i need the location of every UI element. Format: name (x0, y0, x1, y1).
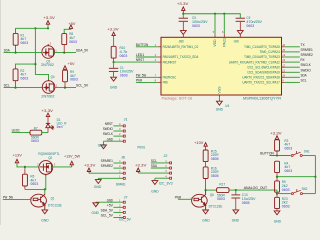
svg-text:GND: GND (94, 185, 102, 189)
svg-text:Q6: Q6 (210, 193, 214, 197)
wire gate node (25, 176, 46, 189)
resistor R9 (63, 70, 78, 88)
node R9-SCL_5V (64, 87, 66, 89)
wire TX (281, 42, 305, 47)
wire ANALOG_OUT into ladder (276, 190, 278, 194)
svg-text:GND: GND (232, 218, 240, 222)
svg-text:+5V: +5V (68, 62, 75, 66)
resistor R7 (30, 126, 48, 143)
svg-text:+3.3V: +3.3V (41, 109, 53, 113)
svg-text:Package: SOT-16: Package: SOT-16 (162, 96, 193, 100)
wire Q3 drain to SDA_5V (54, 52, 76, 54)
node R1-SDA (15, 52, 17, 54)
transistor Q4 2N7002 (41, 75, 57, 99)
svg-text:SDA: SDA (151, 163, 157, 168)
resistor R6 (23, 167, 39, 190)
svg-text:TIM0_C1/PA24: TIM0_C1/PA24 (259, 50, 279, 54)
wire SWCLK (281, 62, 311, 67)
svg-text:R17: R17 (219, 182, 225, 186)
svg-text:R7: R7 (34, 126, 38, 130)
transistor Q2 RQ5H030SPTL (37, 152, 60, 176)
ground (C5 to MCU GND pin) (180, 31, 186, 35)
capacitor C9 (236, 16, 263, 30)
ground (C9 to MCU GND pin) (237, 31, 243, 35)
ground (MCU VSS) (216, 95, 224, 112)
pin GND (98, 177, 121, 179)
wire PWM (136, 77, 161, 82)
power +10V (194, 141, 207, 150)
power +5V (R9) (63, 62, 75, 70)
svg-text:PA1/NRST: PA1/NRST (163, 60, 177, 64)
svg-text:UART0_RX/I2C1_SDA/PA18: UART0_RX/I2C1_SDA/PA18 (242, 76, 279, 80)
svg-text:+13V: +13V (13, 153, 23, 157)
svg-text:GND: GND (151, 190, 159, 194)
node R6 tap (24, 166, 26, 168)
power +13V (13, 153, 23, 164)
svg-text:NRST: NRST (136, 57, 145, 62)
svg-text:SCL_5V: SCL_5V (101, 213, 114, 218)
node C13 tap (235, 189, 237, 191)
svg-text:MSPM0L1306TQYYR: MSPM0L1306TQYYR (243, 96, 281, 100)
svg-text:GND: GND (98, 144, 106, 148)
wire Q2 drain to +13V_5W (52, 166, 72, 168)
svg-text:J7: J7 (124, 195, 128, 199)
svg-text:SPARE2: SPARE2 (101, 163, 113, 168)
svg-text:PW_5W: PW_5W (3, 194, 13, 199)
svg-text:12: 12 (281, 63, 286, 67)
svg-text:+3.3V: +3.3V (135, 163, 147, 167)
wire LED1 (136, 52, 161, 57)
svg-text:DTC123E: DTC123E (48, 203, 62, 207)
svg-text:PA21: PA21 (222, 38, 226, 47)
svg-text:+10V: +10V (194, 141, 204, 145)
resistor R4 (275, 161, 293, 177)
svg-text:2N7002: 2N7002 (41, 63, 54, 67)
sheet border (0, 0, 2, 225)
ground (J2) (154, 178, 156, 180)
node NRST (113, 61, 115, 63)
ground (Q1) (41, 210, 49, 223)
svg-text:PWM: PWM (175, 195, 181, 200)
resistor R3 (275, 139, 293, 156)
power +3.3V (MCU) (177, 2, 189, 14)
wire SWDIO (281, 67, 311, 72)
svg-text:0603: 0603 (31, 139, 39, 143)
svg-text:J6: J6 (121, 156, 125, 160)
svg-text:16: 16 (281, 43, 286, 47)
svg-text:SW1: SW1 (304, 149, 310, 153)
svg-text:SDA_5V: SDA_5V (76, 48, 89, 53)
svg-text:2N7002: 2N7002 (41, 94, 54, 98)
wire +3.3V rail (16, 27, 48, 29)
transistor Q3 2N7002 (41, 42, 57, 68)
node rail-R2tap (34, 27, 36, 29)
switch SW1 (291, 149, 315, 176)
node R16/Q6/R17 (205, 189, 207, 191)
svg-text:+3.3V: +3.3V (270, 132, 282, 136)
wire BUTTON (136, 42, 161, 47)
svg-text:0603: 0603 (20, 41, 28, 45)
wire PW_5W (136, 72, 161, 77)
svg-text:I2C_3V3: I2C_3V3 (159, 182, 173, 186)
capacitor C5 (179, 14, 209, 30)
wire SCL (282, 77, 308, 82)
svg-text:UART0_TX/I2C1_SCL/PA17: UART0_TX/I2C1_SCL/PA17 (242, 81, 279, 85)
node BUTTON (276, 154, 278, 156)
svg-text:Q4: Q4 (51, 75, 55, 79)
svg-text:BUTTON: BUTTON (136, 42, 148, 47)
power +3.3V (level shifter) (43, 16, 55, 26)
svg-text:+3.3V: +3.3V (84, 163, 96, 167)
svg-text:J2: J2 (164, 154, 168, 158)
svg-text:0603: 0603 (30, 182, 38, 186)
svg-text:0805: 0805 (211, 174, 219, 178)
power +5V (R8) (64, 22, 76, 33)
resistor R2 (13, 63, 36, 88)
svg-text:Q1: Q1 (51, 196, 55, 200)
resistor R15 (203, 149, 219, 167)
svg-text:0603: 0603 (192, 24, 200, 28)
svg-text:0805: 0805 (242, 201, 250, 205)
ground (C1) (110, 77, 118, 89)
svg-text:0603: 0603 (284, 146, 292, 150)
svg-text:GND: GND (234, 40, 239, 44)
wire RX (281, 57, 305, 62)
wire gate drop (35, 28, 48, 79)
svg-text:BUTTON: BUTTON (260, 151, 274, 156)
svg-text:GND: GND (107, 136, 113, 141)
resistor R8 (62, 32, 77, 52)
wire SPARE1 (281, 47, 313, 52)
svg-text:ANALOG_OUT: ANALOG_OUT (244, 185, 268, 190)
svg-text:0603: 0603 (246, 24, 254, 28)
wire SPARE2 (281, 52, 313, 57)
ground (R23) (274, 211, 282, 224)
svg-text:U4: U4 (225, 104, 229, 108)
ground (C13) (232, 210, 240, 223)
svg-text:0603: 0603 (120, 54, 128, 58)
ground (J7) (95, 201, 97, 204)
svg-text:SW2: SW2 (302, 187, 308, 191)
svg-text:0603: 0603 (69, 40, 77, 44)
svg-text:0603: 0603 (282, 204, 290, 208)
pin GND (155, 177, 168, 179)
svg-text:UART0_RX/UART1_RX/TIM2_C1/PA22: UART0_RX/UART1_RX/TIM2_C1/PA22 (229, 60, 280, 64)
resistor R5 (275, 177, 290, 194)
svg-text:+3.3V: +3.3V (107, 28, 119, 32)
svg-text:0603: 0603 (282, 188, 290, 192)
svg-text:SCL: SCL (301, 77, 308, 82)
svg-text:PROG: PROG (137, 146, 145, 150)
wire mid node (277, 176, 315, 178)
wire SDA (281, 72, 307, 77)
pin +3.3V (138, 172, 167, 174)
svg-text:LED1: LED1 (12, 128, 20, 133)
node R2-SCL (14, 87, 16, 89)
svg-text:TIM1_C1/UART0_TX/PA25: TIM1_C1/UART0_TX/PA25 (244, 45, 280, 49)
svg-text:GND: GND (179, 40, 184, 44)
svg-text:SCL: SCL (4, 83, 11, 88)
power +13V_5W flag (64, 155, 81, 167)
svg-text:Q2: Q2 (48, 156, 52, 160)
svg-text:VSS: VSS (218, 86, 222, 94)
svg-text:GND: GND (110, 86, 118, 90)
svg-text:0603: 0603 (70, 78, 78, 82)
svg-text:0603: 0603 (284, 169, 292, 173)
svg-text:15: 15 (281, 48, 286, 52)
svg-text:13: 13 (281, 58, 286, 62)
svg-text:0603: 0603 (20, 76, 28, 80)
svg-text:0603: 0603 (120, 73, 128, 77)
svg-text:PA6: PA6 (163, 81, 168, 85)
node R8-SDA_5V (63, 52, 65, 54)
svg-text:3mm: 3mm (57, 125, 63, 129)
op-amp U4 MSPM0L1306 body (161, 37, 282, 95)
wire VDD drops (214, 14, 216, 34)
svg-text:0603: 0603 (217, 197, 225, 201)
svg-text:VDD: VDD (213, 39, 217, 47)
power +3.3V (LED) (41, 109, 53, 119)
svg-text:GND: GND (92, 211, 100, 215)
svg-text:GND: GND (274, 219, 282, 223)
svg-text:+5V: +5V (69, 22, 76, 26)
svg-text:PA0/UART1_TX/I2C0_SDA: PA0/UART1_TX/I2C0_SDA (163, 55, 199, 59)
svg-text:RQ5H030SPTL: RQ5H030SPTL (38, 152, 59, 156)
resistor R16 (203, 166, 219, 190)
capacitor C13 (231, 190, 256, 210)
svg-text:+3.3V: +3.3V (177, 2, 189, 6)
ground (J1) (103, 141, 105, 145)
svg-text:PA26/UART0_RX/TIM1_C0: PA26/UART0_RX/TIM1_C0 (163, 45, 199, 49)
svg-text:SPARE: SPARE (116, 182, 126, 186)
svg-text:+13V_5W: +13V_5W (64, 155, 81, 159)
resistor R1 (13, 28, 28, 52)
LED D1 (46, 118, 67, 133)
resistor R17 (206, 182, 277, 201)
capacitor C1 (109, 62, 134, 77)
switch SW2 (277, 177, 315, 195)
svg-text:DTC123E: DTC123E (209, 205, 223, 209)
resistor R23 (275, 194, 290, 211)
svg-text:0805: 0805 (211, 157, 219, 161)
wire NRST (114, 57, 161, 62)
svg-text:SDA: SDA (4, 48, 10, 53)
wire +13V to Q2 (17, 164, 39, 167)
svg-text:14: 14 (281, 53, 286, 57)
svg-text:PA2/ROSC: PA2/ROSC (163, 76, 177, 80)
svg-text:GND: GND (41, 218, 49, 222)
power +3.3V (R10) (107, 28, 119, 47)
transistor Q1 DTC123E (30, 194, 63, 210)
svg-text:I2C1_SDA/SWDIO/PA19: I2C1_SDA/SWDIO/PA19 (248, 70, 280, 74)
node rail-Q3gate (47, 27, 49, 29)
svg-text:J1: J1 (124, 118, 128, 122)
svg-text:I2C_5V: I2C_5V (119, 217, 131, 221)
transistor Q6 DTC123E (190, 190, 222, 210)
svg-text:10: 10 (281, 73, 286, 77)
ground (Q6) (202, 210, 210, 222)
svg-text:PWM: PWM (136, 77, 142, 82)
resistor R10 (111, 46, 127, 62)
wire Q4 drain to SCL_5V (55, 87, 76, 89)
node SW2 (276, 193, 278, 195)
svg-text:GND: GND (216, 108, 224, 112)
wire 3.3V rail (183, 14, 240, 18)
svg-text:GND: GND (202, 218, 210, 222)
pin +3.3V (89, 172, 121, 174)
svg-text:TIM0_C0/UART0_TX/PA23: TIM0_C0/UART0_TX/PA23 (244, 55, 280, 59)
svg-text:+3.3V: +3.3V (43, 16, 55, 20)
ground (J6) (97, 178, 99, 179)
power +3.3V (ladder) (270, 132, 282, 140)
svg-text:I2C1_SCL/SWCLK/PA20: I2C1_SCL/SWCLK/PA20 (248, 65, 280, 69)
svg-text:SCL_5V: SCL_5V (76, 83, 89, 88)
